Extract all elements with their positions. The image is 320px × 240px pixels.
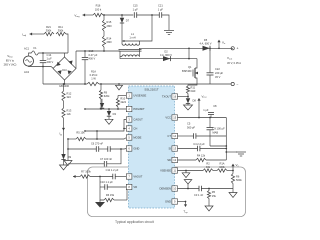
svg-text:R15: R15 [107,20,112,24]
svg-text:Iadj: Iadj [22,32,26,37]
svg-text:1 µF: 1 µF [158,7,164,11]
node C13 bus [84,83,86,85]
resistor R14 2M0 [102,36,105,47]
node output Vo [218,47,220,49]
svg-text:1 W: 1 W [91,77,96,81]
svg-text:2Ω0: 2Ω0 [191,89,196,93]
svg-text:−: − [237,83,239,87]
diode D2 4A 600V [163,56,171,61]
svg-text:2M0: 2M0 [107,24,113,28]
wire R1A to node [227,170,233,172]
svg-text:Q1: Q1 [188,65,192,69]
svg-text:MODE: MODE [133,136,141,140]
wire pin9 GND [178,201,186,203]
svg-text:4 A, 600 V: 4 A, 600 V [200,42,212,46]
wire C21 to ground corner [162,15,169,30]
wire drain node to output line [188,48,190,58]
pin 15 VCC [172,115,178,120]
pin 16 TXOUT [172,94,178,99]
wire pin2 PWLIMIT row [85,108,127,110]
svg-text:R2: R2 [206,161,210,165]
svg-text:C6 270 nF: C6 270 nF [91,142,104,146]
svg-text:4k22: 4k22 [120,100,126,104]
svg-text:D8: D8 [193,99,197,103]
svg-text:400 V: 400 V [47,60,54,64]
wire Iadj arrow line [30,33,45,35]
terminal output minus [231,82,234,85]
svg-text:R13: R13 [67,109,72,113]
svg-text:15k: 15k [212,194,217,198]
svg-text:PWLIMIT: PWLIMIT [133,107,145,111]
svg-text:Vreg: Vreg [74,13,80,18]
svg-text:C14: C14 [47,53,52,57]
svg-text:R1A: R1A [219,161,224,165]
svg-text:220 µF: 220 µF [215,71,224,75]
wire VCC to ground rail [225,118,227,161]
node divider top [103,14,105,16]
frame around application circuit [88,167,246,217]
wire pin11 VSENSE row [178,170,204,172]
svg-text:C9 100 µF: C9 100 µF [213,127,226,131]
pin 3 CAOUT [126,117,132,122]
wire pin16 row [178,96,189,98]
wire bleeder with current arrow [63,118,65,154]
resistor R10 [117,96,119,99]
node source sense [187,96,189,98]
resistor R16 [93,13,103,16]
svg-text:R21: R21 [46,25,51,29]
resistor R1A 100k [217,169,227,172]
pin 5 MODE [126,135,132,140]
wire VCC caps bottom [210,145,226,147]
svg-text:TXOUT: TXOUT [162,95,171,99]
arrow Vcc annotation [198,99,200,118]
svg-text:D7: D7 [126,18,130,22]
output minus bus [43,83,87,85]
svg-text:R11: R11 [191,85,196,89]
ground D3 [105,119,113,124]
svg-text:C22: C22 [215,67,220,71]
capacitor C7 row [68,163,104,165]
svg-text:C5: C5 [187,122,191,126]
resistor R11 source sense [186,86,189,94]
svg-text:C21: C21 [158,4,163,8]
wire pin1 UVSENSE [118,95,127,97]
capacitor C8 above VCC wire [210,115,212,117]
resistor R11 300k [56,32,66,35]
svg-text:0.25 Ω: 0.25 Ω [90,73,98,77]
svg-text:BSP460: BSP460 [182,69,192,73]
svg-text:SSL2101T: SSL2101T [144,88,158,92]
svg-text:C8: C8 [213,104,217,108]
svg-text:0.47 µF: 0.47 µF [89,53,98,57]
pin 8 VR [126,184,132,189]
node D7 top [121,14,123,16]
wire AC1 top [29,53,32,56]
svg-text:D9: D9 [68,155,72,159]
wire DC+ riser from bridge right corner [75,51,77,69]
node rail pin5 [67,138,69,140]
svg-text:C11 1.2 µF: C11 1.2 µF [106,168,119,172]
svg-text:620k: 620k [104,94,110,98]
svg-text:R7 100k: R7 100k [81,170,91,174]
node C13 on rail [84,50,86,52]
transistor Q1 BSP460 [194,68,196,78]
wire C15 to C21 [137,14,160,16]
resistor R9 [100,84,102,90]
node AC1-C14 [42,52,44,54]
wire pin7 row with R7 and C11 [73,176,80,178]
ground left rail [64,161,72,166]
svg-text:AC1: AC1 [24,47,30,51]
wire pin14 row with C5 [178,135,194,137]
node divider on rail [103,50,105,52]
ground signal on bus [116,85,123,90]
svg-text:45 V: 45 V [215,75,221,79]
svg-text:560 pF: 560 pF [187,125,195,129]
pin 11 VSENSE [172,168,178,173]
wire R11 to AC1 line [66,34,68,53]
wire main winding to output line [139,48,189,56]
pin 1 UVSENSE [126,93,132,98]
svg-text:L1: L1 [131,32,134,36]
svg-text:1 µF: 1 µF [203,108,209,112]
svg-text:R1A: R1A [91,69,96,73]
capacitor C15 1uF [134,12,136,18]
wire pin10 DEMSEN row [178,188,200,190]
wire drain branch from rail [120,51,197,59]
svg-text:36 V; 0.35 A: 36 V; 0.35 A [227,61,241,65]
svg-text:2M0: 2M0 [107,40,113,44]
capacitor C6 row pin6 [68,148,96,150]
pin 13 SI [172,146,178,151]
svg-text:Vout: Vout [227,56,232,61]
wire top Vr line [83,14,94,16]
pin 7 VAOUT [126,174,132,179]
pin 10 DEMSEN [172,186,178,191]
node AC2-C14 [42,66,44,68]
capacitor C13 [84,51,86,57]
svg-text:C13: C13 [89,49,94,53]
bleeder column R12 [63,83,65,85]
svg-text:R6 15k: R6 15k [106,193,115,197]
svg-text:+: + [237,47,239,51]
svg-text:CH: CH [133,127,137,131]
svg-text:CT: CT [167,134,171,138]
ground top right [164,31,174,35]
bridge rectifier D10 [53,57,76,80]
diode D4 above pin2 row [101,99,103,103]
wire top line R16 to C15 [103,14,133,16]
transformer L1 aux winding [122,44,140,46]
svg-text:Vline: Vline [7,54,13,59]
svg-text:R10: R10 [120,96,125,100]
svg-text:SI: SI [168,147,171,151]
wire bridge top stub [64,53,66,57]
wire DC+ rail [76,50,120,52]
node signal ground bus [118,83,120,85]
svg-text:D2: D2 [164,50,168,54]
resistor R6 loop to pin8 [126,187,128,200]
svg-text:D3: D3 [113,112,117,116]
svg-text:R12: R12 [67,92,72,96]
resistor R13 [63,101,65,108]
diode D7 [121,15,123,18]
wire aux winding line [122,15,152,41]
svg-text:VAOUT: VAOUT [133,175,142,179]
svg-text:265 V (AC): 265 V (AC) [4,63,17,67]
svg-text:Vo: Vo [222,41,226,46]
ground Vsense node [232,189,234,193]
svg-text:C4 2.2 µF: C4 2.2 µF [193,142,205,146]
diode D9 [61,154,65,159]
svg-text:Typical application circuit: Typical application circuit [115,220,154,224]
svg-text:R16: R16 [96,4,101,8]
resistor R2 40k [203,169,213,172]
svg-text:40k: 40k [206,165,211,169]
ground stub pin11 [185,171,187,173]
svg-text:1 mH: 1 mH [129,35,135,39]
capacitor C22 [209,48,211,72]
pin 4 CH [126,126,132,131]
svg-text:MAB: MAB [213,130,219,134]
svg-text:VR: VR [133,185,137,189]
node aux riser top [151,14,153,16]
pin 12 SD [172,157,178,162]
wire pin12 row with R4 [178,159,197,161]
svg-text:12k: 12k [67,112,72,116]
svg-text:C3 1 nF: C3 1 nF [194,193,204,197]
capacitor C3 in pin10 row [199,186,201,192]
svg-text:4 A, 600 V: 4 A, 600 V [160,53,172,57]
wire left ground rail [67,139,69,161]
svg-text:Tsp: Tsp [183,209,188,214]
node R9 bus [100,83,102,85]
node bridge minus [64,83,66,85]
wire pin15 VCC row [178,117,227,119]
terminal output plus [231,47,234,50]
transformer L1 core [119,50,142,52]
wire pin3 branch to MODE row [96,131,98,139]
wire Q1 source to sense resistor [188,78,197,86]
wire pin13 row with C4 [178,148,198,150]
transformer L1 main winding [122,55,140,57]
arrow Vo annotation [218,40,220,48]
svg-text:C15: C15 [133,4,138,8]
svg-text:R9: R9 [104,90,108,94]
svg-text:C7 100 nF: C7 100 nF [100,157,113,161]
svg-text:300k: 300k [58,29,64,33]
ground R5b [205,206,213,211]
wire pin5 MODE row with resistor R5 [68,138,76,140]
ground flat right [236,152,246,156]
svg-text:100 k: 100 k [95,7,102,11]
node riser MODE row [96,138,98,140]
pin 14 CT [172,133,178,138]
svg-text:GND: GND [165,200,171,204]
svg-text:C10 1.1 µF: C10 1.1 µF [100,180,113,184]
svg-text:1 µF: 1 µF [47,57,53,61]
svg-text:400 V: 400 V [89,56,96,60]
svg-text:300k: 300k [46,29,52,33]
svg-text:VSENSE: VSENSE [160,169,171,173]
svg-text:VCC: VCC [202,94,208,99]
svg-text:R14: R14 [107,37,112,41]
wire Q1 drain [195,59,197,68]
diode D3 below pin2 row [108,108,110,110]
IC U1 SSL2101T body [129,86,175,208]
wire pin3 pin4 to divider [85,120,127,132]
resistor R21 [44,32,54,35]
ground R6 filled [99,200,101,202]
ground stub above pin10 row [187,184,189,189]
capacitor C10 in pin8 wire [99,177,101,188]
svg-text:1 µF: 1 µF [133,7,139,11]
resistor R15 2M0 [102,20,105,31]
svg-text:UVSENSE: UVSENSE [133,94,146,98]
wire ground stub right [226,151,237,153]
arrow Vo lower annotation [232,164,234,170]
arrow Tsp [185,202,187,207]
capacitor C21 1uF [159,12,161,18]
capacitor C14 [42,53,44,60]
svg-text:3k3: 3k3 [67,95,72,99]
wire bridge bottom stub [64,80,66,84]
svg-text:F1: F1 [33,46,37,50]
node aux left [123,40,125,42]
wire R2 to R1A [213,170,217,172]
svg-text:VCC: VCC [165,116,171,120]
svg-text:R6: R6 [236,174,240,178]
capacitor C9 [209,118,211,128]
pin 2 PWLIMIT [126,106,132,111]
wire AC2 bottom [29,66,54,69]
svg-text:85 V to: 85 V to [6,59,15,63]
svg-text:AC2: AC2 [24,70,30,74]
svg-text:100k: 100k [219,165,225,169]
resistor R5b 15k [208,188,210,190]
svg-text:R5 15k: R5 15k [76,130,85,134]
svg-text:R4 12k: R4 12k [197,153,206,157]
svg-text:D5: D5 [204,38,208,42]
svg-text:DEMSEN: DEMSEN [160,187,172,191]
ground D8 [184,105,193,110]
diode D5 4A 600V [203,46,211,51]
diode D8 [187,97,189,99]
svg-text:R11: R11 [58,25,63,29]
ground D9 [60,165,68,170]
svg-text:GND: GND [133,147,139,151]
AC source V_line [24,56,34,66]
pin 9 GND [172,199,178,204]
svg-text:D10: D10 [62,69,67,72]
svg-text:SD: SD [167,158,171,162]
resistor R6b 560k [232,171,234,174]
svg-text:R5: R5 [212,190,216,194]
node Vo sense [232,170,234,172]
svg-text:560k: 560k [236,178,242,182]
pin 6 GND [126,146,132,151]
svg-text:CAOUT: CAOUT [133,118,143,122]
fuse F1 [32,51,39,55]
svg-text:Ibl: Ibl [59,132,62,137]
node C10 top [99,176,101,178]
